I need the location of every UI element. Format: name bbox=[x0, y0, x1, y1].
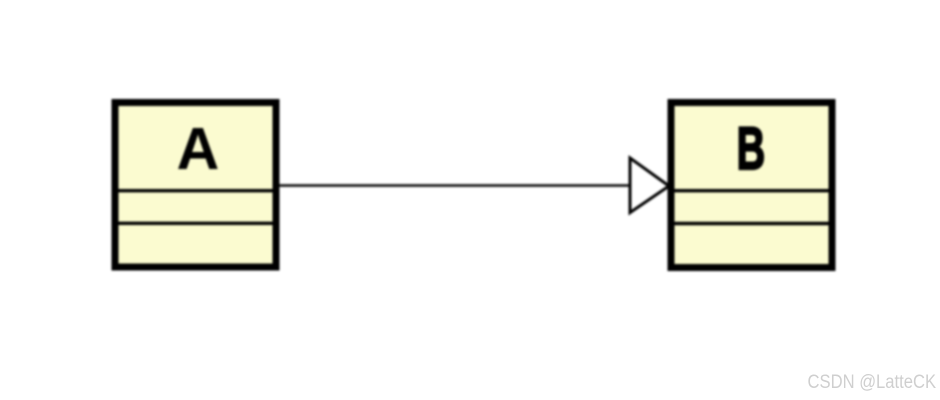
wire: generalization connector from A to B bbox=[279, 184, 632, 187]
class box B bbox=[671, 103, 832, 268]
divider A1 bbox=[112, 189, 279, 192]
divider B2 bbox=[668, 222, 835, 225]
arrowhead: hollow triangle pointing at B bbox=[630, 158, 669, 213]
divider A2 bbox=[112, 222, 279, 225]
watermark CSDN @LatteCK bbox=[808, 372, 937, 394]
divider B1 bbox=[668, 189, 835, 192]
svg-text:A: A bbox=[177, 116, 220, 182]
class box A bbox=[115, 103, 276, 268]
svg-text:B: B bbox=[737, 115, 766, 182]
